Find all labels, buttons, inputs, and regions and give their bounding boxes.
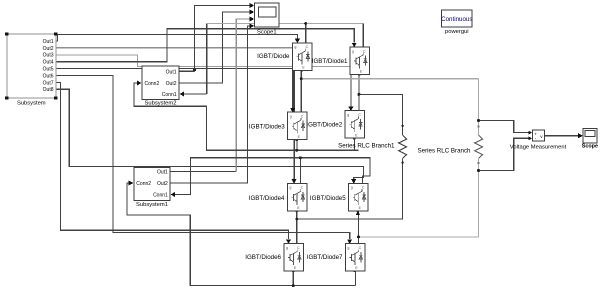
svg-text:Series RLC Branch1: Series RLC Branch1 [338,142,395,149]
arrow into Subsystem2 Conn2 [137,81,142,86]
svg-text:Out1: Out1 [157,170,168,176]
svg-text:Voltage Measurement: Voltage Measurement [510,144,567,150]
svg-text:IGBT/Diode6: IGBT/Diode6 [245,254,281,261]
arrow Scope1 input 2 [250,10,255,15]
node emitter port r3R [357,210,359,212]
arrow into IGBT/Diode7 gate [347,239,352,244]
wire Out7 to IGBT/Diode6 gate [56,82,289,239]
junction row3 left collector on bridge2 DC+ rail [299,156,302,159]
svg-text:Out6: Out6 [43,73,54,79]
arrow into IGBT/Diode2 gate [348,107,353,112]
svg-text:Out4: Out4 [43,60,54,66]
wire Subsystem2 Out2 to Scope1 input 2 [179,12,250,83]
node emitter port r2L [296,139,298,141]
node emitter port r2R [353,137,355,139]
wire Subsystem1 Out1 riser to Scope1 input 3 [236,19,250,172]
arrow into Voltage Measurement + [528,131,532,135]
junction row4 left emitter on bus [292,284,295,287]
block Voltage Measurement [510,130,567,150]
subsystem Subsystem2 [142,66,179,107]
wire row1 left collector riser [305,24,307,43]
svg-text:Out7: Out7 [43,80,54,86]
wire Out8 to IGBT/Diode5 gate [56,89,364,179]
svg-text:Subsystem1: Subsystem1 [136,202,168,208]
svg-text:Out8: Out8 [43,87,54,93]
wire row4 left emitter drop [292,269,294,285]
wire row3 left collector riser [299,158,301,184]
svg-text:g: g [347,113,349,117]
svg-text:g: g [290,115,292,119]
subsystem Subsystem [5,32,57,106]
wire leg1 left midpoint (row1L E to row2L C) [300,69,302,113]
wire Out4 to IGBT/Diode1 gate [56,29,354,62]
arrow into Scope [578,133,583,138]
arrow Scope1 input 1 [250,3,255,8]
transistor block IGBT/Diode3 [249,112,307,140]
transistor block IGBT/Diode1 [312,47,370,75]
wire Series RLC Branch lower lead [478,159,480,237]
svg-text:Scope1: Scope1 [257,30,277,36]
svg-text:IGBT/Diode4: IGBT/Diode4 [249,195,285,202]
junction row2 left emitter on DC- rail [295,149,298,152]
block powergui [441,10,472,35]
wire leg1 right midpoint (row1R E to row2R C) [358,73,360,111]
wire Series RLC Branch1 bottom to leg2 left midpoint [297,159,403,220]
svg-text:IGBT/Diode5: IGBT/Diode5 [310,195,346,202]
wire row2 left emitter drop [296,138,298,150]
wire RLC bottom node to Voltage Measurement - [479,138,529,170]
svg-text:Scope: Scope [582,144,598,150]
wire Subsystem1 Out2 to Scope1 input 4 [170,26,250,183]
junction leg1R midpoint [357,93,360,96]
wire Voltage Measurement v to Scope [545,135,580,137]
arrow into IGBT/Diode6 gate [286,239,291,244]
transistor block IGBT/Diode7 [307,244,365,272]
node emitter port r1R [358,73,360,75]
svg-text:Series RLC Branch: Series RLC Branch [418,148,472,155]
svg-text:g: g [351,186,353,190]
svg-text:Conn1: Conn1 [162,92,177,98]
wire Subsystem2 Out1 riser to Scope1 input 1 [195,6,251,72]
wire leg1L midpoint to Series RLC Branch top [301,78,478,80]
node Series RLC Branch1 top port [401,125,403,127]
wire DC- rail bridge1 (Conn2 Subsystem2 to row2 emitters) [134,83,358,150]
node Series RLC Branch top port [477,125,479,127]
arrow into row3-right emitter [356,211,360,215]
svg-text:powergui: powergui [445,29,469,35]
svg-text:Conn1: Conn1 [153,193,168,199]
transistor block IGBT/Diode4 [249,183,307,211]
wire DC- rail bridge2 (Conn2 Subsystem1 to row4 emitter bus) [127,183,356,286]
node emitter port r4L [292,270,294,272]
node emitter port r1L [301,69,303,71]
node emitter port r3L [296,210,298,212]
svg-text:Out2: Out2 [157,181,168,187]
junction row1 collectors rail [304,22,307,25]
svg-text:Out2: Out2 [43,46,54,52]
arrow into IGBT/Diode3 gate [290,108,295,113]
node Series RLC Branch bottom port [477,162,479,164]
wire RLC top node to Voltage Measurement + [479,121,529,133]
wire DC+ rail bridge2 (Conn1 Subsystem1 to row3 collectors) [175,158,371,195]
svg-text:g: g [348,246,350,250]
wire leg2 right midpoint (row3R E to row4R C) [358,209,360,244]
svg-text:g: g [290,186,292,190]
svg-text:IGBT/Diode2: IGBT/Diode2 [306,122,342,129]
wire Series RLC Branch bottom to row4R collector [359,236,479,238]
arrow into Voltage Measurement - [528,136,532,140]
svg-text:IGBT/Diode: IGBT/Diode [257,53,290,60]
wire Out5 to IGBT/Diode3 gate [56,69,293,108]
svg-text:IGBT/Diode1: IGBT/Diode1 [312,58,348,65]
node emitter port r4R [354,270,356,272]
arrow Scope1 input 4 [250,23,255,28]
arrow into Subsystem2 Conn1 [180,92,185,97]
svg-text:Out3: Out3 [43,53,54,59]
scope Scope [582,129,598,150]
wire Out6 to IGBT/Diode7 gate [56,76,350,240]
svg-text:Out5: Out5 [43,67,54,73]
wire Out3 drop into IGBT/Diode2 gate [350,67,352,107]
wire Out2 toward row3 left gate (upper run) [56,47,292,49]
wire Subsystem1 Out1 stub [170,171,236,173]
junction RLC bottom tap [477,169,480,172]
resistor Series RLC Branch1 [338,135,407,158]
junction leg2 right midpoint [357,235,360,238]
svg-text:IGBT/Diode7: IGBT/Diode7 [307,254,343,261]
svg-text:IGBT/Diode3: IGBT/Diode3 [249,123,285,130]
transistor block IGBT/Diode5 [310,183,368,211]
wire Out1 to IGBT/Diode gate [56,35,298,41]
wire row2 right emitter drop [353,136,355,150]
arrow into IGBT/Diode1 gate [352,43,357,48]
wire Series RLC Branch upper lead [478,79,480,136]
svg-text:Out2: Out2 [166,81,177,87]
subsystem Subsystem1 [134,167,170,207]
svg-text:g: g [295,45,297,49]
arrow into IGBT/Diode4 gate [292,179,297,184]
arrow into Subsystem1 Conn2 [129,181,134,186]
scope Scope1 [254,3,279,36]
wire DC+ rail bridge1 (to row1 collectors) [207,23,364,25]
wire row4 right emitter drop [355,269,357,285]
wire Subsystem2 Out1 stub [179,70,195,72]
svg-text:g: g [352,49,354,53]
svg-text:Continuous: Continuous [441,16,472,23]
junction RLC top tap [477,119,480,122]
svg-text:Out1: Out1 [43,39,54,45]
svg-text:Conn2: Conn2 [136,181,151,187]
arrow into IGBT/Diode5 gate [351,179,356,184]
transistor block IGBT/Diode2 [306,111,364,139]
svg-text:Subsystem2: Subsystem2 [145,101,177,107]
junction Out5/Subsystem2-Out1 [193,68,196,71]
wire row1 right collector drop [362,24,364,47]
arrow into Subsystem1 Conn1 [171,192,176,197]
junction leg2 left midpoint [295,218,298,221]
wire Conn1 Subsystem2 stub [184,93,207,95]
transistor block IGBT/Diode6 [245,244,303,272]
wire leg1R midpoint to Series RLC Branch1 top [359,94,403,135]
svg-text:Out1: Out1 [166,69,177,75]
node Series RLC Branch1 bottom port [401,162,403,164]
svg-text:Subsystem: Subsystem [17,100,46,106]
arrow Scope1 input 3 [250,17,255,22]
junction leg1L midpoint [300,77,303,80]
svg-text:g: g [286,246,288,250]
wire Conn1 Subsystem2 riser [206,24,208,95]
wire Out2 to IGBT/Diode4 gate (lower run) [293,71,295,179]
wire leg2 left midpoint (row3L E to row4L C) [296,209,298,244]
resistor Series RLC Branch [418,135,483,158]
transistor block IGBT/Diode [257,43,312,71]
svg-text:Conn2: Conn2 [145,81,160,87]
arrow into IGBT/Diode gate [295,39,300,44]
wire Out3 to IGBT/Diode2 gate [56,55,351,67]
